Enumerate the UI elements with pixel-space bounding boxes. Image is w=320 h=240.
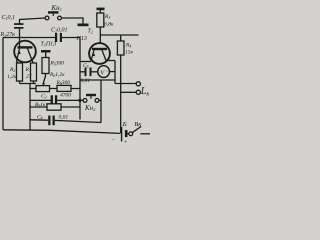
right rail from R4 to battery (120, 55, 122, 133)
svg-text:R5300: R5300 (50, 61, 65, 67)
capacitor C2 (55, 33, 62, 42)
wire Kn2 to right riser (99, 99, 101, 101)
pushbutton Kn1 (45, 11, 61, 20)
svg-text:С20,01: С20,01 (51, 28, 68, 34)
left bus (2, 38, 4, 130)
svg-text:Т1П13: Т1П13 (41, 42, 57, 48)
wire top from C1 to Kn1 (20, 18, 46, 24)
svg-text:R61,2к: R61,2к (49, 72, 65, 78)
chassis terminal above R3 (97, 8, 105, 11)
svg-text:+: + (124, 140, 128, 146)
svg-text:Б: Б (122, 121, 127, 128)
svg-text:−: − (112, 137, 116, 143)
svg-text:27: 27 (26, 74, 32, 80)
long vertical node wire (79, 38, 81, 120)
resistor R5 300 (42, 58, 49, 74)
battery plates (121, 127, 128, 142)
svg-text:Вк: Вк (134, 121, 142, 128)
capacitor C4 row (30, 119, 48, 121)
wire C2 to vertical node (62, 37, 80, 39)
chassis terminal mid (41, 50, 51, 53)
indicator V (98, 66, 110, 78)
transistor T2 (89, 43, 110, 64)
svg-text:0,01: 0,01 (59, 115, 69, 121)
resistor R2 (left under T1) (17, 63, 23, 81)
svg-text:6,8к: 6,8к (104, 22, 114, 28)
capacitor C5 (80, 71, 85, 73)
svg-text:15к: 15к (125, 50, 134, 56)
wire R3 to T2 base (99, 27, 101, 44)
transistor T1 (14, 41, 36, 63)
pot left lead (30, 88, 36, 90)
output terminal Lk lower (121, 91, 137, 93)
resistor R4 (117, 41, 124, 55)
bottom bus (3, 130, 120, 134)
resistor R3 (97, 13, 104, 27)
junction node (78, 99, 81, 102)
svg-text:С10,1: С10,1 (2, 15, 16, 21)
right riser (100, 80, 102, 123)
output terminal Lk upper (115, 83, 136, 85)
wire R4 top (100, 34, 138, 36)
ladder rail (29, 84, 31, 131)
capacitor C1 (14, 23, 24, 29)
svg-text:Т2: Т2 (88, 29, 93, 35)
resistor R8 row (50, 88, 81, 90)
emitter wire to node (80, 61, 91, 63)
svg-text:0,01: 0,01 (81, 78, 91, 84)
capacitor C3 row (30, 99, 51, 101)
wire left bus to C2 (3, 37, 55, 39)
collector rail vertical (114, 61, 116, 84)
wire joining resistor bottoms (20, 81, 37, 84)
svg-text:1,2к: 1,2к (7, 74, 17, 80)
resistor R9 row (30, 106, 47, 108)
potentiometer R6 body (36, 86, 50, 92)
wiper arm to potentiometer (43, 74, 46, 85)
switch Vk (128, 133, 129, 135)
svg-text:П13: П13 (76, 36, 87, 42)
wire C1 bottom to T1 base (19, 29, 21, 47)
bottom of V loop (80, 79, 115, 81)
svg-text:4700: 4700 (60, 92, 71, 99)
wire Kn1 to chassis terminal (62, 18, 84, 24)
resistor R7 (31, 63, 37, 81)
pushbutton Kn2 (83, 94, 99, 103)
wire V to collector rail (110, 71, 116, 73)
collector wire (106, 60, 115, 62)
chassis terminal top (78, 24, 89, 27)
